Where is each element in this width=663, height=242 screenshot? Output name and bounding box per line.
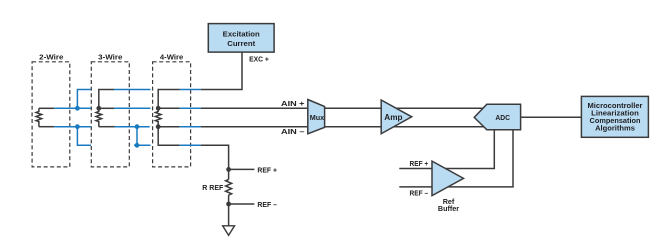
svg-text:ADC: ADC xyxy=(495,113,510,122)
svg-text:Mux: Mux xyxy=(310,113,324,122)
svg-text:REF +: REF + xyxy=(410,161,429,168)
wire AIN+ dark stub from 3-Wire junction xyxy=(99,107,114,109)
wire AIN+ blue segment 2-Wire to 3-Wire xyxy=(54,107,91,109)
svg-text:Excitation: Excitation xyxy=(223,31,260,39)
svg-text:4-Wire: 4-Wire xyxy=(160,52,184,61)
svg-text:Algorithms: Algorithms xyxy=(595,124,635,133)
wire ADC output to microcontroller xyxy=(521,116,582,118)
wire level A blue segment right of 4-Wire box xyxy=(180,89,201,91)
svg-text:REF +: REF + xyxy=(257,168,277,175)
wire 2-Wire blue jumper from AIN- down to REF level xyxy=(77,127,91,146)
wire REF- stub at R REF xyxy=(229,203,255,205)
mux U1 xyxy=(308,100,325,134)
wire REF level dark run to R REF branch xyxy=(201,145,229,179)
resistor RTD 3-Wire xyxy=(96,108,102,126)
resistor RTD 4-Wire xyxy=(155,108,161,126)
junction node 3-Wire top xyxy=(96,106,101,111)
wire Mux to ADC upper (AIN+) xyxy=(325,107,486,109)
junction node blue 3-Wire AIN- xyxy=(135,124,140,129)
junction node REF- xyxy=(226,202,231,207)
wire AIN+ dark run to Mux xyxy=(201,107,308,109)
wire 3-Wire top vertical to level A xyxy=(99,90,114,109)
svg-text:AIN –: AIN – xyxy=(281,129,305,136)
wire REF level blue segment right of 4-Wire xyxy=(180,144,201,146)
junction node 4-Wire top xyxy=(156,106,161,111)
wire 4-Wire bottom vertical to REF level xyxy=(158,127,179,146)
wire EXC: vertical from Excitation Current box down and left along level A xyxy=(201,52,242,90)
wire AIN- dark stub from 2-Wire resistor xyxy=(39,126,54,128)
wire AIN- dark run to Mux xyxy=(201,126,308,128)
dashed box 4-Wire xyxy=(153,62,191,167)
block Microcontroller Linearization Compensation Algorithms xyxy=(581,96,648,137)
junction node 4-Wire bottom xyxy=(156,124,161,129)
svg-text:3-Wire: 3-Wire xyxy=(98,52,122,61)
wire REF+ stub at R REF xyxy=(229,168,255,170)
junction node blue 2-Wire AIN+ xyxy=(75,106,80,111)
op-amp Ref Buffer xyxy=(432,161,464,196)
dashed box 2-Wire xyxy=(32,62,70,167)
wire REF- through Ref Buffer up to ADC xyxy=(399,130,513,187)
dashed box 3-Wire xyxy=(91,62,129,167)
wire 4-Wire top vertical to level A xyxy=(158,90,179,109)
wire REF+ through Ref Buffer up to ADC xyxy=(399,130,494,169)
svg-text:REF –: REF – xyxy=(257,202,277,209)
svg-text:Amp: Amp xyxy=(384,113,402,122)
adc ADC xyxy=(474,104,520,129)
op-amp Amp xyxy=(381,100,412,134)
wire AIN+ dark stub from 4-Wire junction xyxy=(158,107,179,109)
junction node blue 3-Wire REF xyxy=(135,143,140,148)
svg-text:R REF: R REF xyxy=(202,185,224,192)
wire AIN- dark stub from 4-Wire junction xyxy=(158,126,179,128)
svg-text:AIN +: AIN + xyxy=(281,101,305,108)
resistor R REF xyxy=(226,180,232,196)
svg-text:Buffer: Buffer xyxy=(438,204,459,213)
wire AIN- blue segment 3-Wire to 4-Wire xyxy=(115,126,150,128)
junction node REF+ xyxy=(226,167,231,172)
wire 2-Wire blue jumper from AIN+ up to level A xyxy=(77,90,91,109)
wire AIN- blue segment right of 4-Wire xyxy=(180,126,201,128)
ground xyxy=(223,226,235,236)
wire AIN- dark stub from 3-Wire resistor xyxy=(99,126,115,128)
svg-text:EXC +: EXC + xyxy=(249,56,269,63)
svg-text:2-Wire: 2-Wire xyxy=(39,52,63,61)
wire AIN+ dark stub from 2-Wire resistor xyxy=(39,107,54,109)
wire 3-Wire blue jumper from AIN- down to REF level xyxy=(134,127,151,146)
svg-text:REF –: REF – xyxy=(410,191,429,198)
wire AIN+ blue segment 3-Wire to 4-Wire xyxy=(114,107,151,109)
svg-text:Current: Current xyxy=(227,40,256,48)
junction node blue 2-Wire AIN- xyxy=(75,124,80,129)
wire Mux to ADC lower (AIN-) xyxy=(325,126,486,128)
resistor RTD 2-Wire xyxy=(36,108,42,126)
wire AIN+ blue segment right of 4-Wire xyxy=(180,107,201,109)
block Excitation Current xyxy=(208,24,274,52)
wire below R REF to ground xyxy=(228,195,230,226)
wire level A blue segment between 3-Wire and 4-Wire xyxy=(114,89,151,91)
wire AIN- blue segment 2-Wire to 3-Wire xyxy=(54,126,91,128)
